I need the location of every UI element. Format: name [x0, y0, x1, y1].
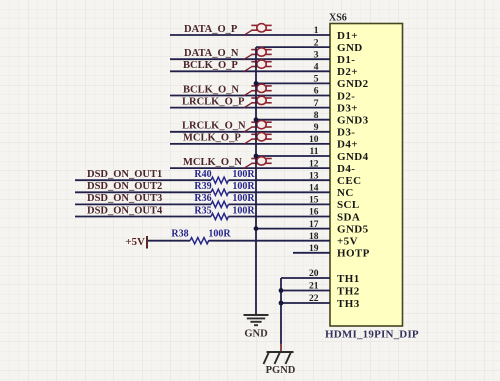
net label DSD_ON_OUT3: [87, 193, 162, 204]
svg-text:DSD_ON_OUT3: DSD_ON_OUT3: [87, 193, 162, 204]
svg-text:HDMI_19PIN_DIP: HDMI_19PIN_DIP: [325, 329, 419, 341]
svg-text:D4+: D4+: [337, 139, 358, 151]
ground GND: [244, 315, 269, 325]
svg-text:LRCLK_O_N: LRCLK_O_N: [182, 121, 246, 132]
svg-text:18: 18: [309, 232, 319, 242]
svg-text:100R: 100R: [232, 205, 255, 216]
svg-text:HOTP: HOTP: [337, 248, 370, 260]
net label DATA_O_N: [184, 48, 239, 59]
svg-text:13: 13: [309, 171, 319, 181]
pin 18 (+5V) wire, number and name: [147, 232, 358, 248]
svg-text:22: 22: [309, 294, 319, 304]
power port +5V: [125, 236, 147, 249]
solder jumper pad on LRCLK_O_P: [244, 96, 272, 108]
solder jumper pad on DATA_O_N: [244, 48, 272, 60]
ground PGND label: [266, 365, 296, 376]
pin 12 (D4-) wire, number and name: [170, 159, 355, 175]
svg-text:DATA_O_N: DATA_O_N: [184, 48, 239, 59]
part type HDMI_19PIN_DIP: [325, 329, 419, 341]
solder jumper pad on LRCLK_O_N: [244, 120, 272, 132]
resistor R36 100R: [194, 193, 255, 207]
svg-text:MCLK_O_P: MCLK_O_P: [183, 133, 241, 144]
wire GND bus vertical: [255, 47, 257, 314]
svg-text:D2+: D2+: [337, 66, 358, 78]
junction node pin 11 on GND bus: [254, 154, 259, 159]
pin 19 (HOTP) wire, number and name: [293, 244, 370, 260]
svg-text:20: 20: [309, 269, 319, 279]
net label BCLK_O_N: [183, 84, 239, 95]
svg-text:1: 1: [314, 26, 319, 36]
pin 6 (D2-) wire, number and name: [170, 87, 355, 103]
pin 20 (TH1) wire, number and name: [281, 269, 360, 285]
svg-text:DATA_O_P: DATA_O_P: [184, 24, 238, 35]
pin 22 (TH3) wire, number and name: [281, 294, 360, 310]
svg-text:GND2: GND2: [337, 78, 369, 90]
svg-text:+5V: +5V: [337, 236, 358, 248]
svg-text:6: 6: [314, 87, 319, 97]
svg-text:4: 4: [314, 63, 319, 73]
pin 13 (CEC) wire, number and name: [75, 171, 361, 187]
svg-text:12: 12: [309, 159, 319, 169]
junction node pin 22 on TH bus: [279, 301, 284, 306]
solder jumper pad on BCLK_O_N: [244, 84, 272, 96]
resistor R35 100R: [194, 205, 255, 219]
junction node pin 8 on GND bus: [254, 117, 259, 122]
pin 2 (GND) wire, number and name: [256, 38, 363, 54]
pin 11 (GND4) wire, number and name: [256, 147, 369, 163]
pin 3 (D1-) wire, number and name: [170, 50, 355, 66]
svg-text:PGND: PGND: [266, 365, 296, 376]
svg-text:GND3: GND3: [337, 115, 369, 127]
svg-text:SCL: SCL: [337, 199, 360, 211]
svg-text:17: 17: [309, 220, 319, 230]
pin 10 (D4+) wire, number and name: [170, 135, 358, 151]
net label LRCLK_O_N: [182, 121, 246, 132]
svg-text:R40: R40: [194, 169, 211, 180]
net label MCLK_O_N: [183, 157, 242, 168]
net label DSD_ON_OUT1: [87, 169, 162, 180]
svg-text:D2-: D2-: [337, 90, 355, 102]
svg-text:BCLK_O_N: BCLK_O_N: [183, 84, 239, 95]
svg-text:TH3: TH3: [337, 298, 360, 310]
svg-text:9: 9: [314, 123, 319, 133]
ground PGND (chassis): [264, 352, 294, 364]
pin 8 (GND3) wire, number and name: [256, 111, 369, 127]
pin 21 (TH2) wire, number and name: [281, 282, 360, 298]
svg-text:GND5: GND5: [337, 223, 369, 235]
svg-text:SDA: SDA: [337, 211, 360, 223]
svg-text:R39: R39: [194, 181, 211, 192]
svg-text:100R: 100R: [208, 229, 231, 240]
svg-text:D4-: D4-: [337, 163, 355, 175]
svg-text:100R: 100R: [232, 181, 255, 192]
svg-text:XS6: XS6: [329, 13, 347, 24]
pin 16 (SDA) wire, number and name: [75, 208, 360, 224]
solder jumper pad on MCLK_O_N: [244, 157, 272, 169]
solder jumper pad on DATA_O_P: [244, 24, 272, 36]
solder jumper pad on MCLK_O_P: [244, 133, 272, 145]
svg-text:2: 2: [314, 38, 319, 48]
svg-text:D1-: D1-: [337, 54, 355, 66]
svg-text:16: 16: [309, 208, 319, 218]
pin 7 (D3+) wire, number and name: [170, 99, 358, 115]
svg-text:DSD_ON_OUT1: DSD_ON_OUT1: [87, 169, 162, 180]
svg-text:DSD_ON_OUT2: DSD_ON_OUT2: [87, 181, 162, 192]
pin 9 (D3-) wire, number and name: [170, 123, 355, 139]
net label DSD_ON_OUT4: [87, 205, 163, 216]
pin 5 (GND2) wire, number and name: [256, 75, 369, 91]
resistor R40 100R: [194, 169, 255, 183]
connector XS6 body: [330, 24, 403, 327]
junction node pin 21 on TH bus: [279, 288, 284, 293]
svg-text:BCLK_O_P: BCLK_O_P: [183, 60, 238, 71]
svg-text:GND: GND: [244, 329, 268, 340]
pin 15 (SCL) wire, number and name: [75, 196, 360, 212]
svg-text:D3-: D3-: [337, 127, 355, 139]
svg-text:GND4: GND4: [337, 151, 369, 163]
svg-text:R38: R38: [171, 229, 188, 240]
net label BCLK_O_P: [183, 60, 238, 71]
junction node pin 17 on GND bus: [254, 226, 259, 231]
svg-text:NC: NC: [337, 187, 354, 199]
svg-text:100R: 100R: [232, 169, 255, 180]
svg-text:8: 8: [314, 111, 319, 121]
svg-text:DSD_ON_OUT4: DSD_ON_OUT4: [87, 205, 163, 216]
pin 17 (GND5) wire, number and name: [256, 220, 369, 236]
svg-text:D3+: D3+: [337, 102, 358, 114]
svg-text:21: 21: [309, 282, 319, 292]
svg-text:R36: R36: [194, 193, 211, 204]
svg-text:GND: GND: [337, 42, 363, 54]
svg-text:15: 15: [309, 196, 319, 206]
svg-text:5: 5: [314, 75, 319, 85]
svg-text:14: 14: [309, 184, 319, 194]
svg-text:19: 19: [309, 244, 319, 254]
net label DATA_O_P: [184, 24, 238, 35]
resistor R39 100R: [194, 181, 255, 195]
wire TH bus vertical to PGND: [280, 278, 282, 352]
svg-text:11: 11: [310, 147, 319, 157]
pin 14 (NC) wire, number and name: [75, 184, 354, 200]
solder jumper pad on BCLK_O_P: [244, 60, 272, 72]
net label LRCLK_O_P: [182, 96, 245, 107]
net label DSD_ON_OUT2: [87, 181, 162, 192]
svg-text:TH2: TH2: [337, 285, 360, 297]
resistor R38 100R: [171, 229, 231, 244]
svg-text:CEC: CEC: [337, 175, 361, 187]
svg-text:3: 3: [314, 50, 319, 60]
svg-text:LRCLK_O_P: LRCLK_O_P: [182, 96, 245, 107]
junction node pin 5 on GND bus: [254, 81, 259, 86]
svg-text:MCLK_O_N: MCLK_O_N: [183, 157, 242, 168]
svg-text:7: 7: [314, 99, 319, 109]
net label MCLK_O_P: [183, 133, 241, 144]
pin 1 (D1+) wire, number and name: [170, 26, 358, 42]
svg-text:100R: 100R: [232, 193, 255, 204]
ground GND label: [244, 329, 268, 340]
pin 4 (D2+) wire, number and name: [170, 63, 358, 79]
designator XS6: [329, 13, 347, 24]
svg-text:D1+: D1+: [337, 30, 358, 42]
svg-text:TH1: TH1: [337, 273, 360, 285]
svg-text:+5V: +5V: [125, 236, 145, 248]
svg-text:R35: R35: [194, 205, 211, 216]
svg-text:10: 10: [309, 135, 319, 145]
